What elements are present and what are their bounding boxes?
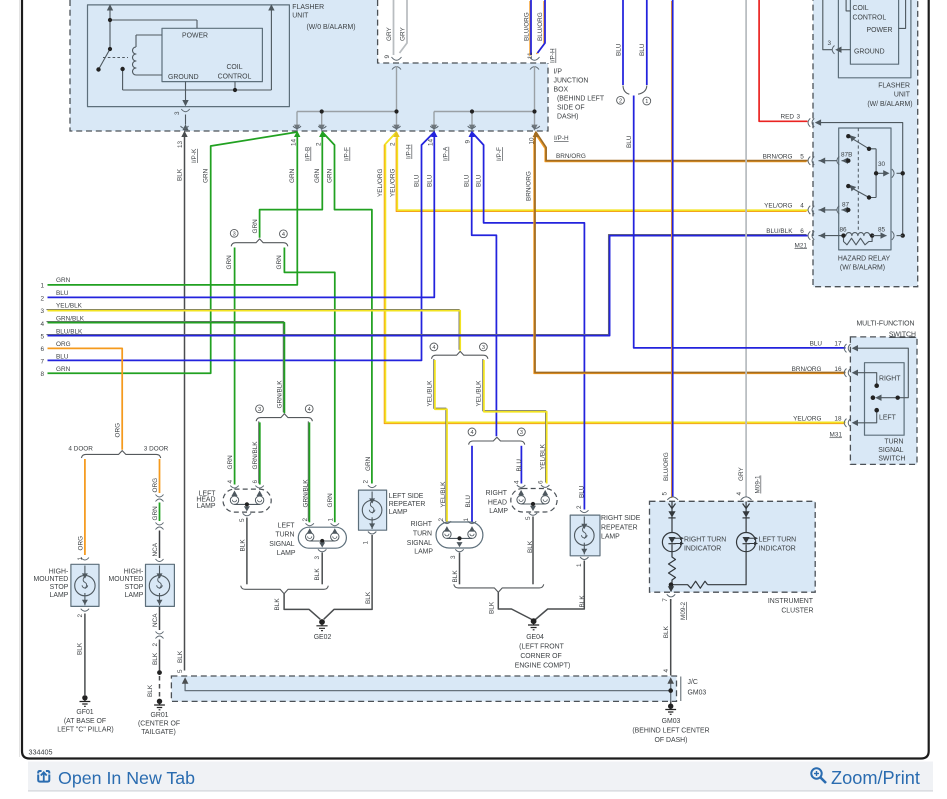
flasher U2 power stub [899,0,906,28]
svg-text:BLU: BLU [56,353,69,360]
svg-text:2: 2 [390,142,397,146]
svg-text:14: 14 [427,138,434,146]
svg-text:4: 4 [470,430,473,436]
right stop lamp bulb [149,566,169,606]
svg-text:334405: 334405 [29,748,53,757]
svg-text:BLU: BLU [464,174,471,187]
inline connector arcs (GRN to NCA) [156,523,164,530]
svg-text:COIL: COIL [853,5,869,12]
svg-text:I/P-K: I/P-K [191,148,198,163]
svg-text:10: 10 [529,137,536,145]
wire BLK below left turn signal lamp [321,553,323,585]
wire BRN/ORG pin 10 left branch to multi-function switch pin 16 [534,132,846,374]
right turn signal lamp stadium [436,522,483,548]
hazard relay resistor R1 parallel [844,236,873,245]
bus internal junction dot [668,688,673,693]
hazard relay switch S1 (upper) [848,136,876,149]
svg-text:3: 3 [828,40,832,47]
instrument cluster pin 4 entry connector [741,497,752,500]
svg-text:Zoom/Print: Zoom/Print [831,768,920,788]
connector 11 arcs [530,57,540,70]
svg-text:INSTRUMENT: INSTRUMENT [768,598,814,605]
svg-text:RIGHT TURN: RIGHT TURN [684,536,726,543]
svg-text:GRN: GRN [227,455,234,470]
left turn signal lamp bottom connector [318,549,326,552]
svg-text:POWER: POWER [182,33,208,40]
pin symbols along junction box bottom edge [181,126,540,137]
svg-text:2: 2 [152,643,159,647]
svg-text:COIL: COIL [226,64,242,71]
svg-text:MOUNTED: MOUNTED [33,576,68,583]
svg-text:M09-1: M09-1 [755,475,762,494]
wire BLK below left side repeater lamp to GE02 [324,535,372,619]
svg-text:(AT BASE OF: (AT BASE OF [64,718,106,725]
svg-text:2: 2 [363,480,370,484]
wire BLU pair above splice (2)(1) [623,0,647,85]
left head lamp bottom connector [243,513,251,516]
wire GRN pin 2 I/P-F left branch to splice [260,137,323,238]
svg-text:BLU/BLK: BLU/BLK [56,328,83,335]
svg-text:BLK: BLK [663,625,670,638]
svg-text:M21: M21 [795,242,808,249]
wire BLK instrument cluster pin 7 to bus pin 4 [670,599,672,676]
splice brace green (3)(4) [231,239,288,246]
svg-text:BLK: BLK [240,539,247,552]
svg-text:(LEFT FRONT: (LEFT FRONT [519,644,564,651]
shadow line left of frame [19,0,21,757]
left side repeater bottom connector [368,532,376,535]
right turn indicator resistor R2 [669,552,676,585]
svg-text:HEAD: HEAD [488,499,507,506]
hazard relay dots [846,134,878,200]
svg-text:BLU: BLU [476,174,483,187]
flasher U2 ground pin 3 wire [823,0,851,50]
wire BLU pin 14 I/P-A right branch to row 2 [48,137,435,298]
svg-text:BRN/ORG: BRN/ORG [763,153,793,160]
svg-text:3: 3 [258,407,261,413]
wire GRN splice branch 4 to left turn signal lamp pin 1 [284,248,334,523]
MFS common arm with arrow [878,397,898,399]
svg-text:LAMP: LAMP [414,549,433,556]
flasher U1 junction dots [96,18,237,92]
splice circled numbers green [230,229,287,237]
svg-text:9: 9 [465,140,472,144]
bus entry arrow left (pin 5) [182,677,189,684]
right turn signal lamp pin connectors [443,521,477,523]
svg-text:BLU: BLU [427,174,434,187]
svg-text:STOP: STOP [125,584,144,591]
svg-text:LEFT TURN: LEFT TURN [759,536,797,543]
left turn indicator LED D2 branch [708,502,756,585]
wire BLU splice branch 3 to right head lamp pin 4 [520,446,522,484]
svg-text:JUNCTION: JUNCTION [554,78,589,85]
svg-text:1: 1 [363,541,370,545]
svg-text:BLU/ORG: BLU/ORG [663,452,670,481]
svg-text:LAMP: LAMP [489,508,508,515]
svg-text:(CENTER OF: (CENTER OF [138,721,180,728]
svg-text:(BEHIND LEFT: (BEHIND LEFT [557,96,605,103]
svg-text:POWER: POWER [867,27,893,34]
svg-text:5: 5 [662,492,669,496]
svg-text:SWITCH: SWITCH [878,456,905,463]
svg-text:MULTI-FUNCTION: MULTI-FUNCTION [856,321,914,328]
svg-text:3 DOOR: 3 DOOR [144,445,169,452]
svg-text:LAMP: LAMP [50,592,69,599]
svg-text:J/C: J/C [688,679,698,686]
left head lamp dashed stadium [223,489,271,512]
junction dots on BLU/ORG tee [470,109,537,113]
svg-text:NCA: NCA [152,542,159,556]
svg-text:2: 2 [315,142,322,146]
svg-text:RED: RED [781,114,795,121]
svg-text:3: 3 [520,430,523,436]
svg-text:BLK: BLK [274,598,281,611]
svg-text:86: 86 [840,227,848,234]
svg-text:1: 1 [463,518,470,522]
svg-text:ENGINE COMPT): ENGINE COMPT) [515,663,571,670]
svg-text:BLU: BLU [414,174,421,187]
right turn signal lamp internals [443,530,477,538]
svg-text:YEL/BLK: YEL/BLK [476,380,483,407]
svg-text:TAILGATE): TAILGATE) [141,729,176,736]
hazard relay mechanical dashed link [857,128,859,232]
pin 14 I/P-B [293,126,301,128]
left turn signal lamp pin connectors [306,523,340,525]
pin 2 I/P-H [393,126,401,128]
svg-text:GF01: GF01 [76,709,93,716]
svg-text:GRY: GRY [738,467,745,481]
svg-text:17: 17 [834,341,842,348]
svg-text:BLU/ORG: BLU/ORG [537,12,544,41]
hazard relay pin 87B link [819,160,849,162]
svg-text:BLK: BLK [177,168,184,181]
svg-text:BRN/ORG: BRN/ORG [556,153,586,160]
flasher U1 pin 3 arrow at edge [182,124,188,130]
svg-text:FLASHER: FLASHER [878,82,910,89]
inline connector arcs (ORG to GRN) [156,495,164,502]
pin 14 I/P-A [430,126,438,128]
svg-text:GRN: GRN [56,277,71,284]
svg-text:LEFT SIDE: LEFT SIDE [389,493,424,500]
svg-text:GRN: GRN [56,366,71,373]
junction dots on GRY tee [320,109,399,113]
svg-text:BLU: BLU [516,459,523,472]
svg-text:BLK: BLK [152,652,159,665]
multi-function switch dashed box [850,337,917,465]
wire ORG row 6 to door splice [48,348,123,449]
svg-text:TURN: TURN [275,532,294,539]
svg-text:GE02: GE02 [314,634,332,641]
svg-text:Open In New Tab: Open In New Tab [58,768,195,788]
svg-text:LEFT: LEFT [278,523,296,530]
svg-text:SWITCH: SWITCH [889,331,916,338]
wire GRN/BLK row 4 to splice [46,322,284,414]
wire BLU pin 14 I/P-A left branch to row 7 [48,132,435,360]
right high-mounted stop lamp box [146,564,175,606]
bus entry arrow right (pin 4) [667,677,674,684]
connector arc above right stop lamp [156,559,164,562]
svg-text:2: 2 [576,505,583,509]
open-in-new-tab icon [38,771,49,782]
svg-text:M31: M31 [830,431,843,438]
toolbar background [28,762,933,792]
svg-text:9: 9 [384,55,391,59]
svg-text:YEL/ORG: YEL/ORG [390,169,397,197]
svg-text:TURN: TURN [884,438,903,445]
left side repeater top connector [368,485,376,487]
wire GRN/BLK splice branch 3 to left head lamp pin 6 [259,421,260,484]
wire GM03 ground stem [670,701,672,704]
svg-text:BLK: BLK [147,684,154,697]
splice brace 4 DOOR / 3 DOOR [81,451,160,458]
svg-text:YEL/BLK: YEL/BLK [540,443,547,470]
zoom/print magnifier icon [811,768,826,783]
svg-text:6: 6 [800,228,804,235]
svg-text:11: 11 [527,52,534,59]
svg-text:GRY: GRY [400,27,407,41]
svg-text:LAMP: LAMP [601,534,620,541]
svg-text:LAMP: LAMP [277,550,296,557]
hazard relay pin 3 connector arcs [808,118,814,126]
left stop lamp bottom connector [81,609,89,612]
svg-text:6: 6 [252,480,259,484]
wire GRN/BLK splice branch 4 to left turn signal lamp pin 2 [308,421,309,522]
left side repeater lamp bulb [362,492,382,530]
svg-text:BLU/BLK: BLU/BLK [766,228,793,235]
svg-text:MOUNTED: MOUNTED [108,576,143,583]
svg-text:14: 14 [291,138,298,146]
svg-text:GM03: GM03 [662,718,681,725]
splice brace grn/blk (3)(4) [256,414,312,421]
svg-text:UNIT: UNIT [292,13,309,20]
svg-text:LAMP: LAMP [197,503,216,510]
left side repeater lamp box [359,490,387,530]
svg-text:87: 87 [842,202,850,209]
svg-text:GRN: GRN [276,255,283,270]
svg-text:I/P-F: I/P-F [496,147,503,161]
flasher unit U1 (W/0 B/ALARM) outer box [88,5,290,107]
hazard relay pin 86 link [819,235,844,237]
svg-text:GRN: GRN [289,168,296,183]
svg-text:2: 2 [302,518,309,522]
svg-text:INDICATOR: INDICATOR [684,546,721,553]
svg-text:2: 2 [40,295,44,302]
splice brace blue (4)(3) [469,437,525,444]
flasher U1 ground arrow down [182,100,188,106]
svg-text:GRN: GRN [203,168,210,183]
svg-text:YEL/ORG: YEL/ORG [377,169,384,197]
wire BLK from brace to ground GE04 [498,592,532,619]
wire BLU splice branch 4 to right turn signal lamp pin 1 [471,446,473,523]
hazard relay coil L1 between 86 and 85 [846,233,870,236]
svg-text:BLU/ORG: BLU/ORG [524,12,531,41]
svg-text:BLU: BLU [639,43,646,56]
wire BLK below left stop lamp to GF01 [84,614,86,696]
flasher U1 top arrows [107,4,275,10]
svg-text:BLU: BLU [465,495,472,508]
flasher unit U2 inner box [850,0,898,64]
svg-text:M09-2: M09-2 [680,601,687,620]
svg-text:BLK: BLK [177,650,184,663]
wire YEL/BLK splice branch 4 to right turn signal lamp pin 2 [434,359,447,522]
left head lamp bulbs and internal [230,496,264,504]
wire GRN right stop lamp feed [159,503,161,522]
svg-text:5: 5 [239,518,246,522]
svg-text:TURN: TURN [413,530,432,537]
hazard relay common bar to pin 30 [876,149,886,198]
right side repeater lamp box [570,515,600,556]
splice circled numbers blu top (2)(1) [617,96,651,105]
svg-text:CLUSTER: CLUSTER [781,607,813,614]
svg-text:GRN: GRN [327,493,334,508]
svg-text:(W/0 B/ALARM): (W/0 B/ALARM) [307,24,356,31]
wire BLU/ORG to instrument cluster pin 5 [672,0,673,498]
right turn signal lamp bottom connector [455,549,463,552]
svg-text:2: 2 [438,518,445,522]
hazard relay pin 3 arrow at dashed edge [815,119,821,125]
wire BLK below right turn signal lamp [459,553,461,585]
svg-text:SIGNAL: SIGNAL [407,540,432,547]
wire YEL/ORG pin 2 I/P-H right branch to hazard relay pin 4 [396,137,807,212]
flasher unit (W/ B/ALARM) dashed box [813,0,918,287]
wire GRN pin 2 I/P-F right branch to left side repeater lamp [322,132,372,484]
svg-text:1: 1 [40,283,44,290]
instrument cluster pin 5 entry connector [667,497,678,500]
svg-text:I/P-F: I/P-F [344,147,351,161]
svg-text:4: 4 [40,321,44,328]
splice circled numbers blu [468,428,525,436]
svg-text:3: 3 [40,308,44,315]
splice circled numbers yel/blk [430,343,487,351]
svg-text:ORG: ORG [115,423,122,438]
svg-text:30: 30 [878,161,886,168]
flasher U2 ground pin 3 connector arc [832,46,834,54]
svg-text:87B: 87B [841,152,852,159]
svg-text:SIGNAL: SIGNAL [269,541,294,548]
right side repeater bottom connector [580,557,588,560]
ground GM03 [665,704,676,715]
svg-text:BRN/ORG: BRN/ORG [526,171,533,201]
ground GF01 [80,695,91,706]
right head lamp bottom connector [529,513,537,516]
svg-text:GRN/BLK: GRN/BLK [252,441,259,470]
ground GR01 [154,699,165,710]
left head lamp pin connectors [230,486,263,488]
svg-text:STOP: STOP [50,584,69,591]
svg-text:GRN: GRN [252,219,259,234]
svg-text:CORNER OF: CORNER OF [520,653,561,660]
svg-text:BLU: BLU [616,43,623,56]
svg-text:RIGHT: RIGHT [411,521,433,528]
svg-text:1: 1 [327,518,334,522]
svg-text:6: 6 [538,480,545,484]
svg-text:5: 5 [40,334,44,341]
svg-text:(BEHIND LEFT CENTER: (BEHIND LEFT CENTER [632,727,709,734]
svg-text:RIGHT SIDE: RIGHT SIDE [601,515,641,522]
svg-text:GROUND: GROUND [168,74,199,81]
svg-text:REPEATER: REPEATER [601,524,638,531]
hazard relay pin 30 to pin 3 link wire [821,123,903,236]
right head lamp dashed stadium [511,489,557,513]
pin 13 I/P-K [181,126,189,128]
multi-function switch box inner [865,363,905,436]
svg-text:ORG: ORG [78,536,85,551]
svg-text:4: 4 [514,480,521,484]
J/C GM03 bracket tick [680,677,682,702]
svg-text:3: 3 [482,345,485,351]
svg-text:5: 5 [177,669,184,673]
svg-text:YEL/BLK: YEL/BLK [56,303,83,310]
svg-text:(W/ B/ALARM): (W/ B/ALARM) [840,265,885,272]
svg-text:I/P-H: I/P-H [550,48,557,63]
wire BLU pin 9 I/P-F left branch to splice [472,137,497,437]
svg-text:I/P-H: I/P-H [406,144,413,159]
svg-text:I/P-B: I/P-B [305,147,312,161]
svg-text:GROUND: GROUND [854,48,885,55]
svg-text:3: 3 [233,232,236,238]
cluster exit pin 7 [670,585,672,592]
right side repeater top connector [580,510,588,512]
svg-text:16: 16 [834,366,842,373]
flasher U2 ground pin 3 arrow [835,47,841,53]
ground GE02 [316,619,327,631]
svg-text:I/P: I/P [554,69,563,76]
svg-text:YEL/ORG: YEL/ORG [793,416,821,423]
svg-text:GR01: GR01 [150,712,168,719]
wire NCA below right stop lamp [159,606,161,630]
splice brace yel/blk (4)(3) [432,351,488,358]
hazard relay pin 87 link [819,209,849,211]
wire NCA right stop lamp feed [159,531,161,559]
svg-text:4: 4 [432,345,435,351]
svg-text:1: 1 [576,563,583,567]
wire stem from connector 11 to pin 10 [434,66,535,130]
wire ORG to left high-mounted stop lamp [84,459,86,555]
svg-text:BLK: BLK [77,642,84,655]
wire BLK below left head lamp [246,518,248,585]
svg-text:RIGHT: RIGHT [486,490,508,497]
hazard relay pin 85 arrow and arc [872,235,886,237]
flasher unit U2 (W/ B/ALARM) outer box [838,0,911,78]
svg-text:BLU: BLU [579,485,586,498]
wire GRY to instrument cluster pin 4 [745,0,747,497]
pin 9 I/P-F [468,126,476,128]
wire BLU merged stem to multi-function switch pin 17 [634,96,846,348]
MFS pin 16 link to RIGHT contact [853,373,877,384]
wire GRY pair above connector 9 [394,0,408,55]
wire RED to hazard relay pin 3 [759,0,807,121]
svg-text:BLK: BLK [365,591,372,604]
svg-text:RIGHT: RIGHT [879,375,901,382]
svg-text:18: 18 [834,416,842,423]
svg-text:LEFT "C" PILLAR): LEFT "C" PILLAR) [57,727,113,734]
svg-text:GE04: GE04 [526,634,544,641]
svg-text:OF DASH): OF DASH) [655,737,688,744]
wire BLU pin 9 I/P-F right branch to right side repeater lamp [472,132,585,510]
svg-text:3: 3 [314,556,321,560]
svg-text:3: 3 [450,555,457,559]
wire BLK dashed to GR01 [159,676,161,699]
pin 10 I/P-H [532,126,540,128]
wire GRN splice branch 3 to left head lamp pin 4 [234,248,236,485]
right head lamp pin connectors [517,485,550,487]
svg-text:HAZARD RELAY: HAZARD RELAY [838,256,891,263]
flasher U1 pin 3 wire to junction box edge [185,115,187,125]
J/C GM03 bus dashed box [171,676,676,701]
svg-text:SIDE OF: SIDE OF [557,105,585,112]
svg-text:3: 3 [174,111,181,115]
inline connector arcs (NCA to BLK) [156,632,164,639]
